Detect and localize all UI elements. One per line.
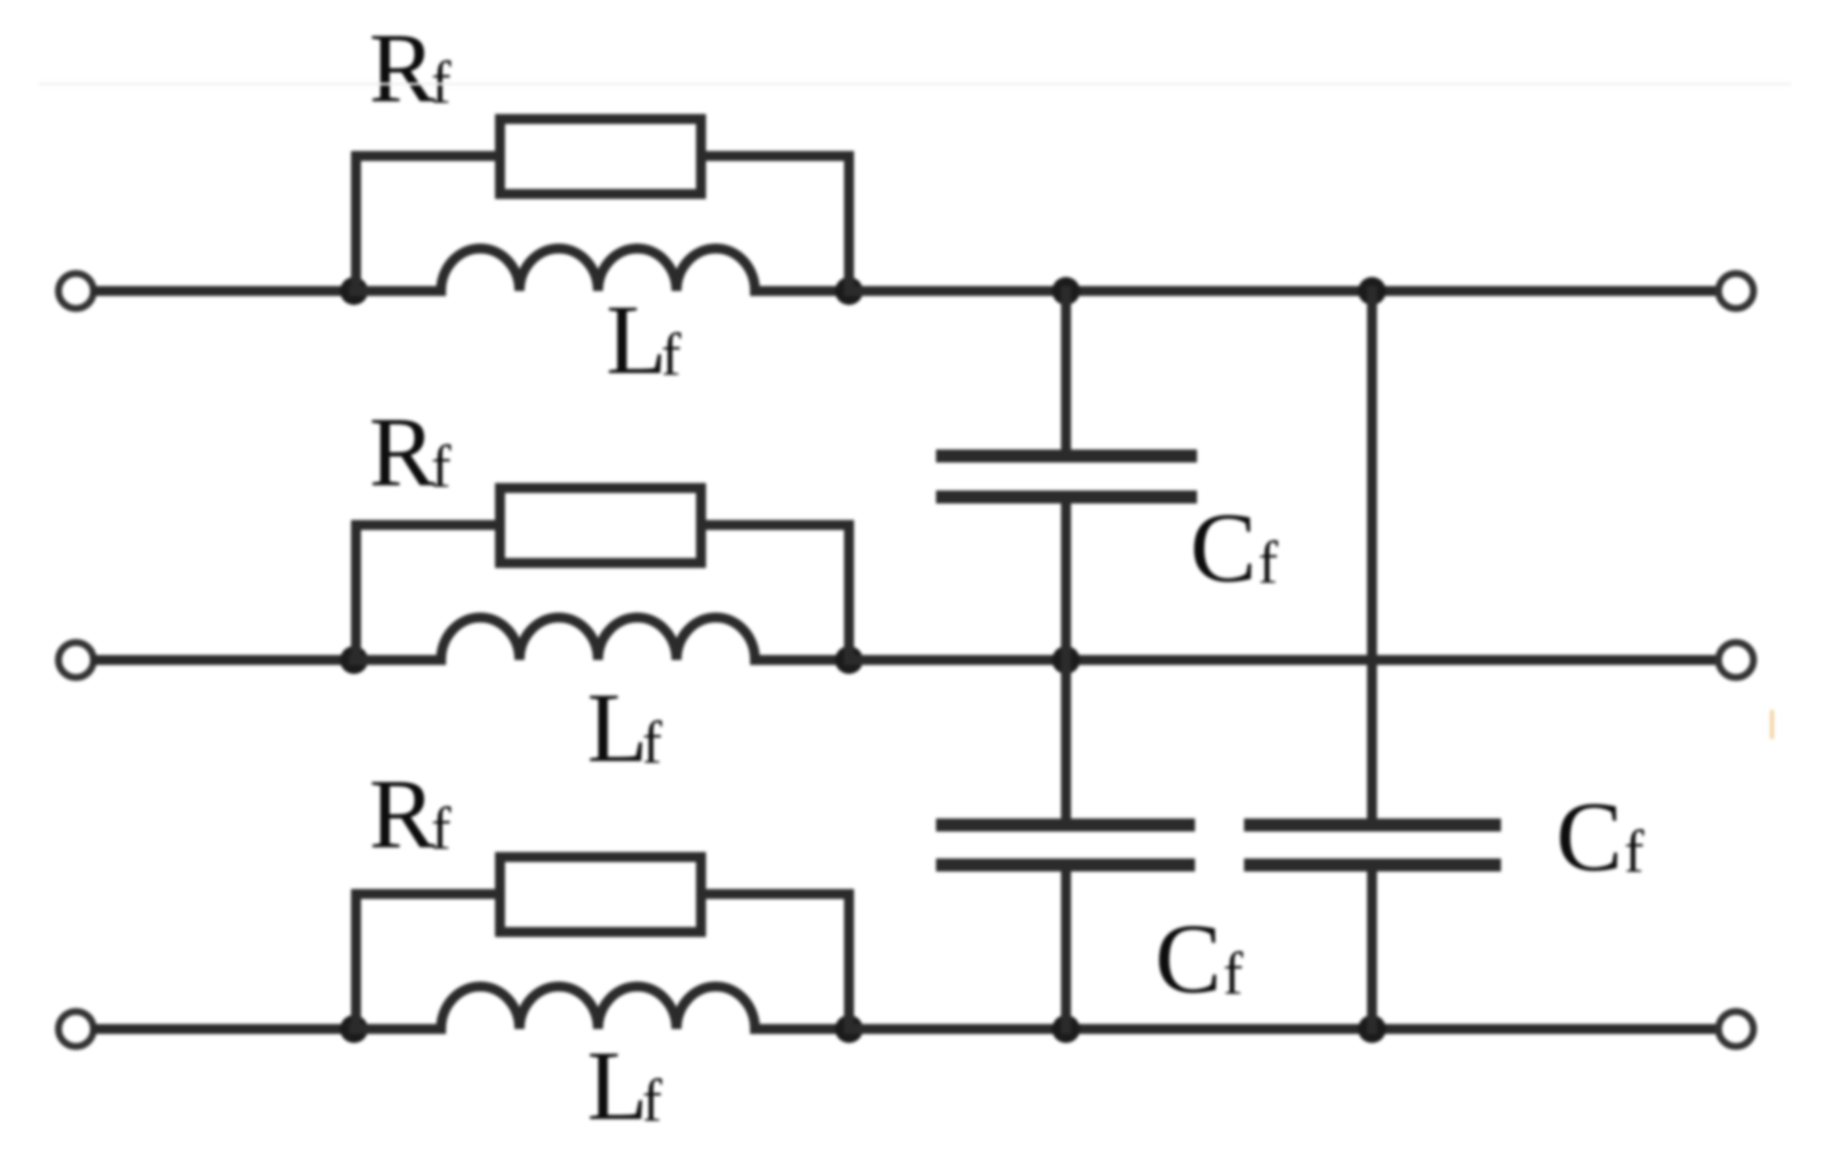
wire phase C: node C1 to inductor [354, 1024, 441, 1034]
label Cf (bus 1 lower) [1155, 903, 1243, 1014]
label Cf (bus 1 upper) [1190, 492, 1278, 603]
label Cf (bus 2) [1556, 781, 1644, 892]
node C3 (bus 1 junction) [1052, 1015, 1080, 1043]
svg-text:f: f [431, 796, 451, 862]
node A3 (bus 1 junction) [1052, 277, 1080, 305]
node A1 [340, 277, 368, 305]
wire bus 1: phase B node to capacitor 2 [1061, 660, 1071, 820]
label Lf (phase B) [587, 672, 662, 783]
label Lf (phase C) [587, 1030, 662, 1141]
terminal: phase A input [59, 274, 94, 309]
wire bus 2: capacitor 3 to phase C node [1367, 865, 1377, 1029]
wire phase C: node C2 to output terminal [849, 1024, 1716, 1034]
resistor Rf (phase C) [500, 857, 701, 932]
node C1 [340, 1015, 368, 1043]
svg-text:C: C [1556, 781, 1623, 892]
svg-text:L: L [587, 672, 648, 783]
svg-text:R: R [369, 396, 436, 507]
node B1 [340, 646, 368, 674]
wire phase B: node B2 to output terminal [849, 655, 1716, 665]
node C4 (bus 2 junction) [1358, 1015, 1386, 1043]
wire phase A: node A1 to inductor [354, 286, 441, 296]
svg-text:f: f [642, 710, 662, 776]
svg-text:C: C [1155, 903, 1222, 1014]
wire: resistor branch left (phase C) [356, 894, 500, 1029]
wire: resistor branch right (phase A) [701, 156, 849, 291]
inductor Lf (phase A) [441, 249, 755, 292]
resistor Rf (phase B) [500, 488, 701, 563]
label Rf (phase A) [369, 12, 451, 123]
terminal: phase B input [59, 643, 94, 678]
wire phase C: inductor to node C2 [755, 1024, 849, 1034]
wire: resistor branch right (phase B) [701, 525, 849, 660]
wire phase A: node A2 to output terminal [849, 286, 1716, 296]
wire phase B: input terminal to node B1 [96, 655, 354, 665]
svg-text:R: R [369, 758, 436, 869]
capacitor Cf (bus 1, between phase A and B) [936, 456, 1197, 497]
terminal: phase B output [1719, 643, 1754, 678]
wire: resistor branch left (phase B) [356, 525, 500, 660]
svg-text:f: f [431, 434, 451, 500]
svg-text:f: f [661, 322, 681, 388]
node A4 (bus 2 junction) [1358, 277, 1386, 305]
wire phase C: input terminal to node C1 [96, 1024, 354, 1034]
faint orange scan artifact (right) [1770, 712, 1774, 737]
svg-text:R: R [369, 12, 436, 123]
terminal: phase C input [59, 1012, 94, 1047]
terminal: phase C output [1719, 1012, 1754, 1047]
wire bus 1: capacitor 2 to phase C node [1061, 865, 1071, 1029]
wire phase B: node B1 to inductor [354, 655, 441, 665]
svg-text:f: f [642, 1068, 662, 1134]
label Lf (phase A) [606, 284, 681, 395]
resistor Rf (phase A) [500, 119, 701, 194]
wire phase A: input terminal to node A1 [96, 286, 354, 296]
svg-text:f: f [1624, 819, 1644, 885]
wire: resistor branch left (phase A) [356, 156, 500, 291]
wire bus 2: phase A node to capacitor 3 (crosses phase B) [1367, 291, 1377, 820]
inductor Lf (phase C) [441, 987, 755, 1030]
svg-text:f: f [1223, 941, 1243, 1007]
terminal: phase A output [1719, 274, 1754, 309]
node A2 [835, 277, 863, 305]
wire bus 1: phase A node to capacitor 1 [1061, 291, 1071, 451]
node B3 (bus 1 junction) [1052, 646, 1080, 674]
svg-text:f: f [1258, 530, 1278, 596]
svg-text:L: L [606, 284, 667, 395]
faint scan artifact line (top) [40, 83, 1790, 86]
svg-text:C: C [1190, 492, 1257, 603]
node B2 [835, 646, 863, 674]
wire bus 1: capacitor 1 to phase B node [1061, 497, 1071, 660]
wire phase B: inductor to node B2 [755, 655, 849, 665]
capacitor Cf (bus 1, between phase B and C) [936, 825, 1195, 865]
node C2 [835, 1015, 863, 1043]
label Rf (phase B) [369, 396, 451, 507]
wire phase A: inductor to node A2 [755, 286, 849, 296]
label Rf (phase C) [369, 758, 451, 869]
svg-text:L: L [587, 1030, 648, 1141]
wire: resistor branch right (phase C) [701, 894, 849, 1029]
inductor Lf (phase B) [441, 618, 755, 661]
capacitor Cf (bus 2, between phase A and C) [1244, 825, 1501, 865]
